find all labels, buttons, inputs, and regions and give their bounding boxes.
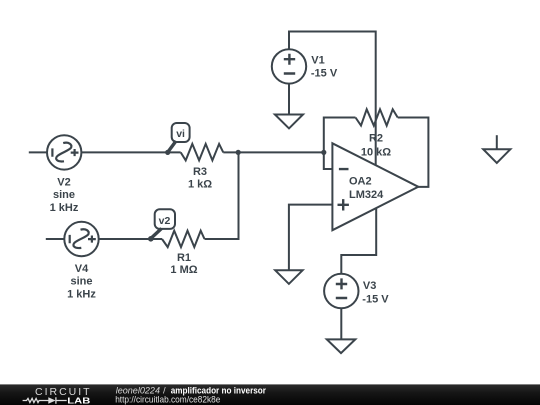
svg-text:V4: V4 (75, 263, 89, 275)
svg-text:1 kΩ: 1 kΩ (188, 178, 212, 190)
svg-text:R3: R3 (193, 166, 207, 178)
svg-text:V2: V2 (57, 177, 70, 189)
svg-text:-15 V: -15 V (362, 293, 389, 305)
svg-text:1 MΩ: 1 MΩ (170, 264, 197, 276)
svg-text:R2: R2 (369, 133, 383, 145)
svg-text:OA2: OA2 (349, 176, 372, 188)
svg-text:LM324: LM324 (349, 189, 384, 201)
svg-text:R1: R1 (177, 252, 191, 264)
svg-text:sine: sine (53, 189, 75, 201)
svg-text:V1: V1 (311, 54, 324, 66)
svg-text:LAB: LAB (67, 396, 90, 405)
svg-text:1 kHz: 1 kHz (67, 288, 96, 300)
svg-text:v2: v2 (159, 215, 171, 227)
svg-text:1 kHz: 1 kHz (50, 202, 79, 214)
svg-text:V3: V3 (363, 280, 376, 292)
svg-text:-15 V: -15 V (311, 67, 338, 79)
svg-text:sine: sine (70, 276, 92, 288)
svg-text:http://circuitlab.com/ce82k8e: http://circuitlab.com/ce82k8e (115, 395, 220, 405)
svg-text:10 kΩ: 10 kΩ (361, 147, 391, 159)
svg-text:vi: vi (176, 128, 185, 140)
